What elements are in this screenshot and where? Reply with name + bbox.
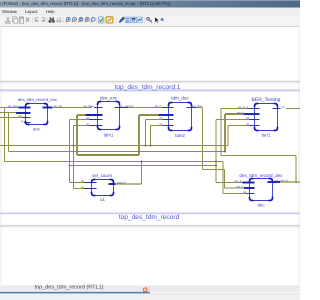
toolbar icon: delete: [26, 18, 30, 22]
toolbar icon: redo: [41, 18, 45, 22]
bus segment to tdm2 p2: [139, 114, 160, 116]
svg-text:top_des_tdm_record:1: top_des_tdm_record:1: [115, 84, 181, 91]
module frame top (lavender): [0, 89, 300, 91]
bus vertical x77: [76, 115, 78, 155]
wire ber1 p1 riser: [220, 109, 222, 156]
wire ber1 err out to edge: [286, 108, 300, 110]
svg-text:rst: rst: [81, 186, 84, 189]
junction clk riser on net A: [215, 161, 217, 163]
module sel_count instance u1: [81, 173, 126, 202]
toolbar icon: pen blue: [119, 17, 125, 23]
junction tdm1 p4 riser on net C: [73, 145, 75, 147]
wire clk riser x69 down to sel_count: [69, 120, 71, 183]
svg-text:tdm_enc: tdm_enc: [100, 96, 118, 101]
wire into dec p3: [223, 193, 247, 195]
toolbar icon: list1: [125, 17, 130, 23]
wire feedback vertical x296: [295, 156, 297, 183]
svg-text:err: err: [282, 106, 285, 109]
svg-text:tdm_dec: tdm_dec: [171, 96, 189, 101]
svg-text:out_sd(7:0): out_sd(7:0): [275, 179, 288, 182]
wire into dec p1: [216, 182, 244, 184]
svg-text:spi_miso: spi_miso: [8, 105, 19, 108]
junction tdm2 p3 on net C: [145, 145, 147, 147]
tab close button: [143, 288, 147, 292]
wire tdm2 p4 riser: [150, 126, 152, 146]
wire x224 down to dec p2: [224, 170, 226, 189]
toolbar icon: zoom in: [66, 17, 71, 22]
svg-text:ser_b: ser_b: [237, 112, 244, 115]
toolbar icon: find next (gray): [56, 18, 62, 23]
wire into sel_count clk: [70, 182, 97, 184]
bus tdm1 p2 segment: [77, 114, 86, 116]
svg-text:Layout: Layout: [25, 9, 38, 14]
svg-text:tdm1: tdm1: [104, 132, 114, 137]
junction tdm2 p4 on net C: [150, 145, 152, 147]
module des_tdm_record_dec instance dec: [234, 173, 288, 208]
bus ber1 p2 riser: [224, 114, 226, 152]
toolbar icon: cursor: [155, 17, 160, 23]
menu bar: [0, 8, 300, 15]
svg-text:ser_data: ser_data: [83, 105, 94, 108]
wire net A horizontal y161: [5, 161, 224, 163]
wire dec out to edge: [280, 181, 300, 183]
junction feedback on dec out: [295, 181, 297, 183]
wire net E horizontal y169: [203, 169, 225, 171]
sheet border top (outer gray): [0, 81, 300, 83]
svg-text:rst: rst: [86, 123, 89, 126]
wire tdm1 p4 stub wire: [74, 125, 93, 127]
svg-text:ser_in_a: ser_in_a: [238, 106, 249, 109]
toolbar icon: edit page (amber): [106, 17, 113, 24]
wire net D horizontal y165: [70, 165, 217, 167]
svg-text:u1: u1: [100, 197, 105, 202]
status bar: [0, 294, 300, 300]
svg-text:BER_Testing: BER_Testing: [252, 97, 281, 103]
wire net sck to enc p3: [0, 117, 26, 119]
svg-text:sel_count: sel_count: [92, 173, 112, 178]
junction clk riser on net D: [215, 165, 217, 167]
svg-text:tdm_in: tdm_in: [234, 180, 242, 183]
wire vertical x8.5 net B riser: [8, 113, 10, 152]
wire tdm1 out to tdm2 p1: [124, 107, 163, 109]
toolbar icon: small blue: [161, 18, 164, 21]
svg-text:ser_dout: ser_dout: [192, 105, 202, 108]
wire tdm2 out: [196, 107, 203, 109]
wire tdm2 out riser x202: [202, 108, 204, 170]
svg-text:des_tdm_record_dec: des_tdm_record_dec: [239, 173, 283, 178]
toolbar icon: find (binoculars): [48, 17, 55, 23]
svg-text:enc: enc: [33, 126, 41, 131]
module frame bottom (lavender): [0, 212, 300, 214]
junction ber1 p2 on net B: [224, 151, 226, 153]
toolbar icon: zoom out: [72, 17, 77, 22]
svg-text:rst: rst: [246, 123, 249, 126]
toolbar icon: zoom fit: [85, 17, 90, 22]
svg-text:ser_in: ser_in: [236, 186, 244, 189]
wire clk riser x216: [215, 120, 217, 183]
module BER_Testing instance ber1: [237, 97, 285, 138]
title bar: [0, 0, 300, 8]
wire tdm2 p4 stub wire: [151, 125, 165, 127]
tab bar: [0, 285, 300, 292]
svg-text:top_des_tdm_record: top_des_tdm_record: [119, 214, 180, 221]
module tdm_enc instance tdm1: [83, 96, 133, 138]
svg-text:Window: Window: [2, 9, 18, 14]
svg-text:spi_out: spi_out: [54, 105, 63, 108]
svg-text:tdm2: tdm2: [175, 133, 185, 138]
sheet border bottom (outer gray): [0, 225, 300, 227]
wire ber1 p4 wire: [228, 125, 251, 127]
svg-text:dec: dec: [257, 202, 265, 207]
svg-text:Help: Help: [46, 9, 55, 14]
wire net B horizontal y151: [9, 151, 226, 153]
svg-text:rst: rst: [160, 123, 163, 126]
svg-text:ISE Project Navigator (P.28xd): ISE Project Navigator (P.28xd) - [top_de…: [0, 1, 170, 6]
bus vertical x139: [138, 115, 140, 155]
svg-text:des_tdm_record_enc: des_tdm_record_enc: [18, 97, 57, 102]
bus horizontal y155: [77, 154, 139, 156]
wire rst riser x73 down to sel_count: [73, 126, 75, 189]
module tdm_dec instance tdm2: [154, 96, 202, 138]
wire tdm2 p3 riser: [145, 120, 147, 146]
wire enc out to tdm1 p1: [53, 107, 92, 109]
svg-text:ber1: ber1: [262, 132, 271, 137]
toolbar icon: undo: [35, 18, 39, 22]
wire net A corner down to dec p3: [222, 162, 224, 194]
bus ber1 p2 wire: [225, 113, 246, 115]
toolbar icon: zoom sel: [91, 17, 96, 22]
wire tdm1 p3 stub wire: [70, 119, 93, 121]
wire vertical x4.5 net A riser: [4, 108, 6, 162]
toolbar icon: copy: [12, 17, 17, 23]
bus sel_count out wire: [115, 183, 142, 185]
toolbar icon: check: [99, 17, 104, 23]
wire into sel_count rst: [74, 188, 97, 190]
active tab underline: [0, 292, 150, 294]
wire ber1 p4 riser: [227, 126, 229, 146]
wire sel riser x141: [141, 162, 143, 185]
wire into dec p2: [225, 187, 246, 189]
wire ber1 p3 wire: [216, 119, 251, 121]
toolbar icon: zoom full: [78, 17, 83, 22]
wire net spi_miso to enc p1: [0, 107, 26, 109]
toolbar icon: pages: [137, 17, 142, 23]
toolbar: [0, 15, 300, 27]
wire ber1 p1 wire: [221, 108, 249, 110]
wire feedback horizontal y155: [221, 155, 296, 157]
wire net mosi to enc p2: [0, 112, 26, 114]
junction sel riser on net A: [141, 161, 143, 163]
svg-text:ser_in: ser_in: [154, 105, 162, 108]
junction net D left end: [69, 165, 71, 167]
toolbar icon: paste: [19, 16, 23, 23]
module des_tdm_record_enc instance enc: [8, 97, 62, 131]
wire tdm2 p3 stub wire: [146, 119, 165, 121]
svg-text:top_des_tdm_record (RTL1): top_des_tdm_record (RTL1): [35, 285, 104, 291]
toolbar icon: list2: [131, 17, 136, 23]
svg-text:ser_out(2:0): ser_out(2:0): [120, 105, 134, 108]
toolbar icon: cut: [5, 17, 10, 23]
wire net C horizontal y145: [0, 145, 228, 147]
toolbar icon: key: [147, 17, 152, 22]
svg-text:sel(2:0): sel(2:0): [117, 181, 126, 184]
